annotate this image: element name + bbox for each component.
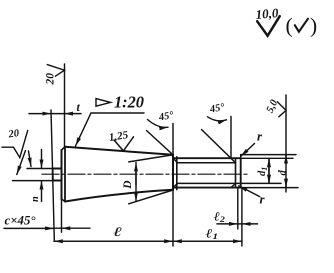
roughness 20 left leader (17, 151, 26, 175)
roughness 20 left symbol (2, 131, 28, 158)
outer top extension (d) (241, 154, 296, 156)
extension line tail left face (t,c,l) (51, 110, 54, 240)
svg-text:d1: d1 (257, 167, 269, 176)
centerline (42, 173, 248, 175)
roughness 10,0 check top right (257, 16, 280, 36)
svg-text:45°: 45° (208, 102, 226, 116)
svg-text:c×45°: c×45° (5, 214, 36, 228)
shoulder at thread start (172, 155, 174, 190)
roughness 20 rotated symbol on extension (47, 65, 64, 77)
svg-text:5,0: 5,0 (265, 98, 281, 115)
wedge line upper (taper indicator) (129, 155, 173, 162)
svg-text:1,25: 1,25 (108, 129, 129, 144)
svg-text:20: 20 (7, 128, 21, 141)
thread major bottom edge + extension right (173, 187, 241, 189)
svg-text:): ) (310, 14, 317, 38)
dimension d1 (268, 159, 270, 184)
roughness 1,25 check (114, 137, 134, 151)
dimension n extension lines (27, 168, 53, 170)
cone top edge (65, 147, 173, 155)
end face (240, 158, 242, 187)
dimension D (135, 163, 137, 185)
extension shoulder down (l / l1) (172, 190, 174, 246)
svg-text:t: t (77, 100, 81, 114)
dimension l1 (173, 240, 242, 242)
cone large-end face (61, 150, 63, 199)
taper leader shelf and arrow (76, 113, 145, 146)
45deg left indicator diagonal (147, 131, 174, 155)
thread minor bottom line with runout + extension (173, 183, 235, 187)
45deg right arc arrow (208, 117, 227, 121)
thread major top edge + extension right (173, 157, 241, 159)
45deg left arc arrow (148, 120, 169, 128)
svg-text:ℓ1: ℓ1 (206, 227, 218, 241)
dimension d line (285, 95, 287, 192)
tail (small cylinder at left, dia n) (53, 169, 62, 181)
45deg right indicator diagonal (202, 130, 232, 159)
extension line chamfer top (t right, roughness) (64, 64, 66, 147)
svg-text:n: n (30, 196, 41, 202)
r bottom leader (239, 186, 260, 197)
svg-text:10,0: 10,0 (255, 5, 279, 22)
svg-text:20: 20 (45, 73, 57, 86)
cone bottom edge (65, 190, 173, 202)
extension thread end down (l2) (237, 188, 239, 229)
taper symbol triangle (96, 99, 111, 107)
45deg right extension up (230, 117, 232, 159)
svg-text:r: r (260, 192, 266, 207)
svg-text:ℓ2: ℓ2 (214, 209, 225, 223)
svg-text:1:20: 1:20 (114, 93, 144, 112)
45deg left extension up (172, 124, 174, 155)
wedge line lower (taper indicator) (129, 190, 173, 204)
svg-text:ℓ: ℓ (113, 225, 123, 239)
svg-text:45°: 45° (157, 110, 175, 124)
extension cone face down (c right) (61, 199, 63, 232)
r top leader (241, 144, 255, 157)
dimension t (29, 113, 51, 115)
chamfer corner diagonals (62, 147, 66, 202)
dimension n arrows (41, 150, 43, 169)
thread minor top line with runout (173, 158, 235, 162)
svg-text:d: d (278, 170, 289, 176)
svg-text:r: r (257, 129, 263, 144)
thread end line (235, 158, 237, 187)
thread start line (176, 157, 178, 190)
dimension c×45 (4, 227, 54, 229)
chamfer edge line at cone large end (64, 147, 66, 202)
dimension l2 (217, 223, 238, 225)
svg-text:D: D (122, 180, 134, 190)
check in parentheses (295, 19, 308, 32)
thread end chamfer diagonals (231, 158, 236, 187)
roughness 5,0 check on d line (277, 102, 286, 117)
dimension l (54, 240, 173, 242)
svg-text:(: ( (286, 14, 293, 38)
roughness 20 second leader (29, 151, 32, 167)
